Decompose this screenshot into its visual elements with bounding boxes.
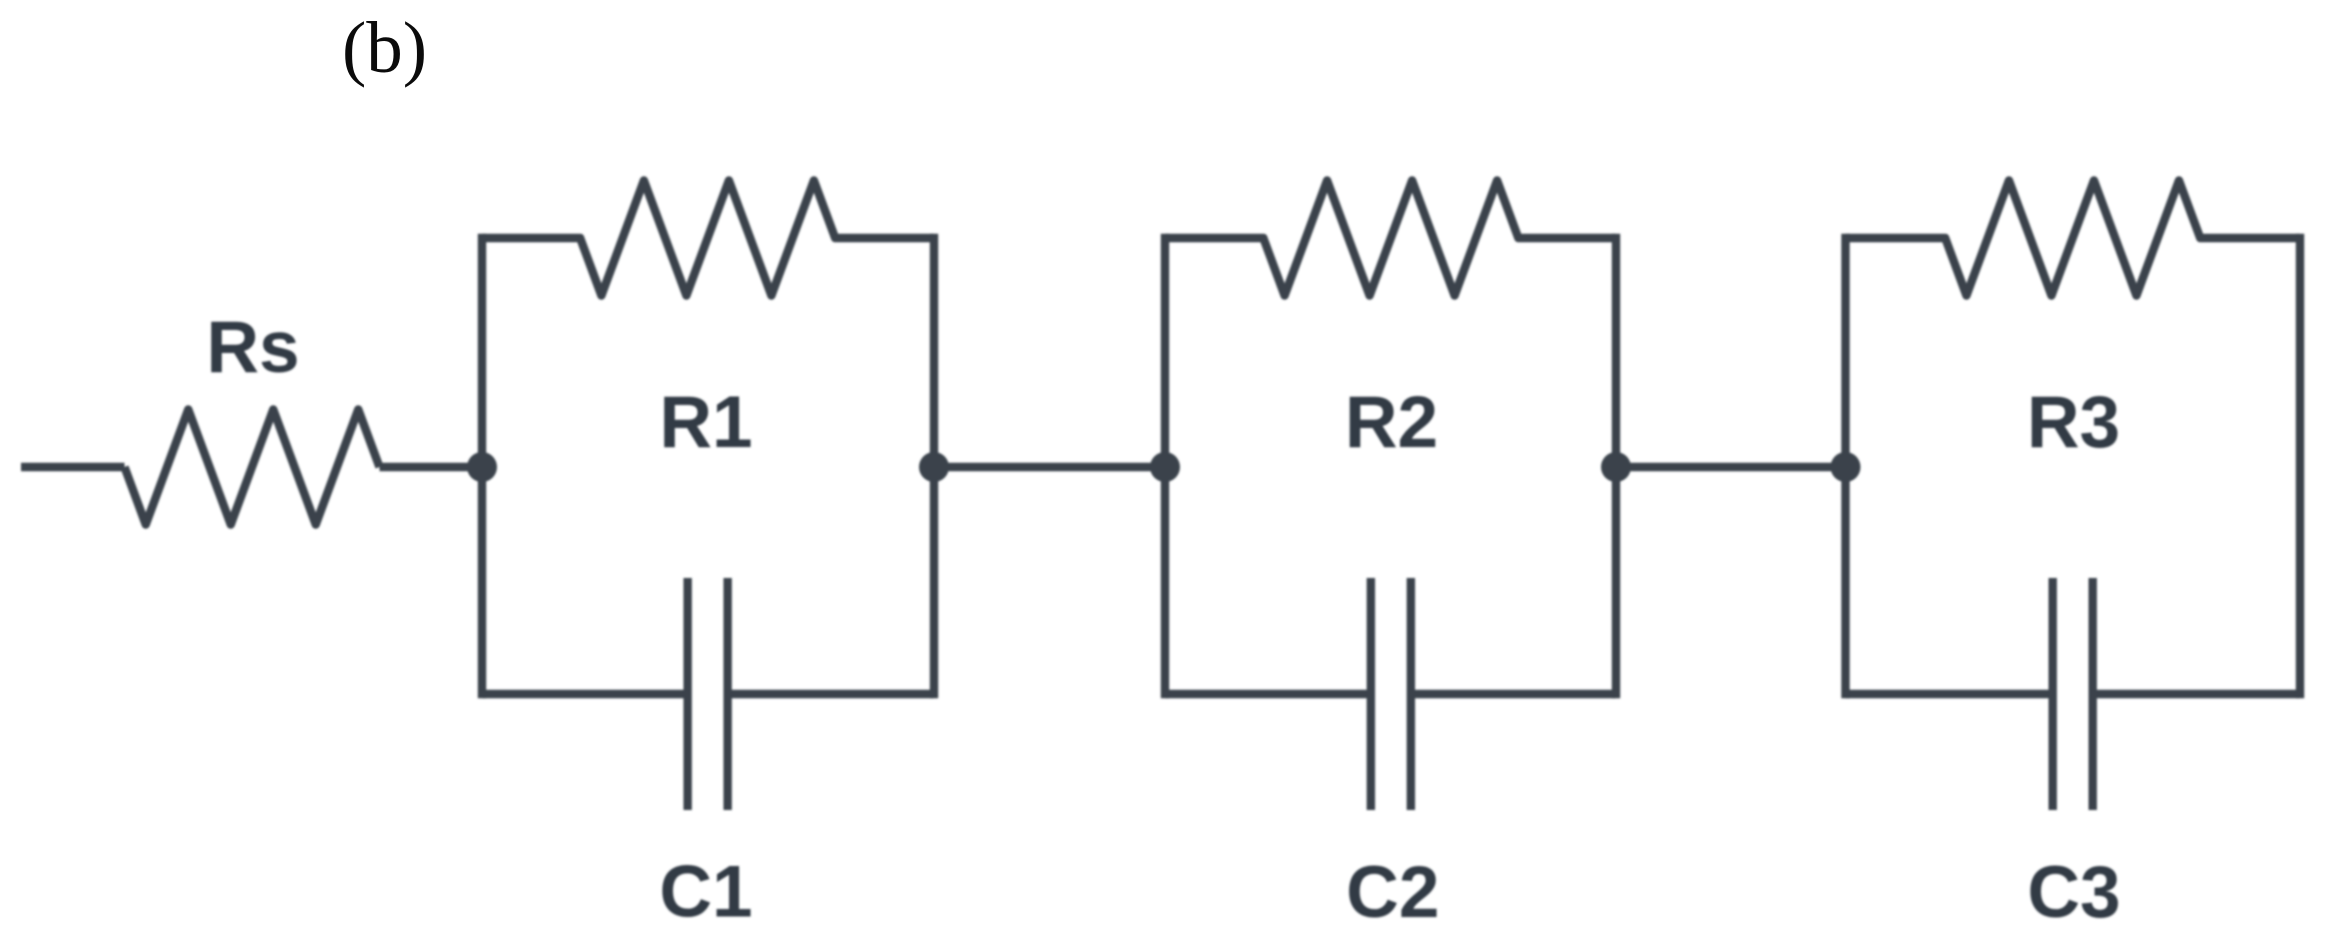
svg-text:Rs: Rs [206, 307, 299, 388]
node C [1150, 452, 1180, 482]
capacitor C1 [688, 578, 728, 810]
wire [1841, 238, 1849, 694]
wire [1411, 690, 1616, 698]
svg-text:C3: C3 [2027, 852, 2120, 933]
wire [2296, 238, 2304, 694]
svg-text:R2: R2 [1345, 382, 1438, 463]
node D [1601, 452, 1631, 482]
wire [934, 463, 1165, 471]
wire [21, 463, 125, 471]
svg-text:C1: C1 [659, 852, 752, 933]
resistor R3 [1846, 181, 2301, 296]
wire [1165, 690, 1371, 698]
wire [1846, 690, 2053, 698]
wire [930, 238, 938, 694]
wire [1161, 238, 1169, 694]
wire [728, 690, 934, 698]
wire [380, 463, 483, 471]
node E [1831, 452, 1861, 482]
wire [2093, 690, 2300, 698]
resistor R2 [1165, 181, 1616, 296]
svg-text:C2: C2 [1346, 852, 1439, 933]
svg-text:R3: R3 [2027, 382, 2120, 463]
wire [1616, 463, 1846, 471]
svg-text:(b): (b) [342, 7, 427, 88]
resistor R1 [482, 181, 934, 296]
wire [1612, 238, 1620, 694]
wire [482, 690, 688, 698]
resistor Rs [125, 410, 380, 525]
node B [919, 452, 949, 482]
svg-text:R1: R1 [659, 382, 752, 463]
wire [478, 238, 486, 694]
capacitor C3 [2053, 578, 2093, 810]
node A [467, 452, 497, 482]
capacitor C2 [1371, 578, 1411, 810]
